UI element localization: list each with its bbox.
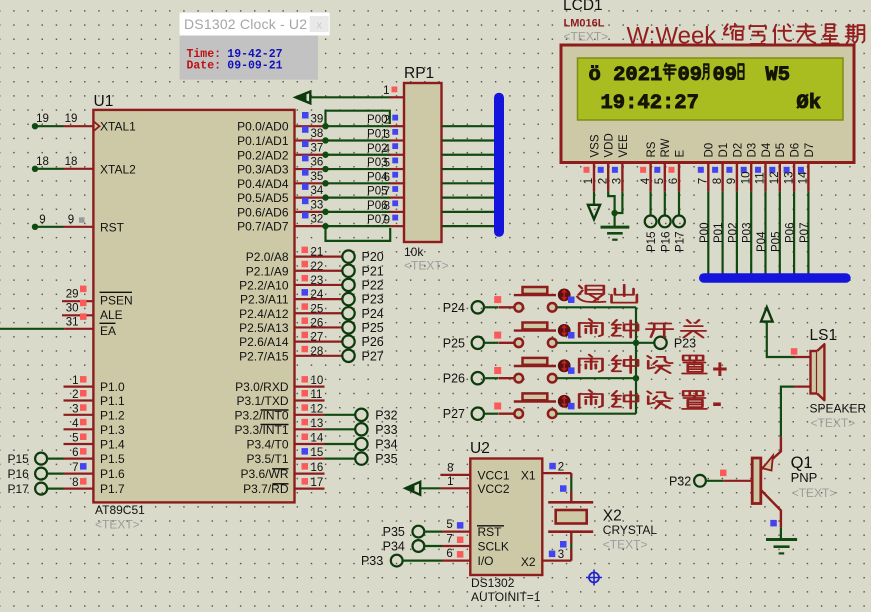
svg-text:1: 1 (447, 476, 453, 488)
svg-text:P33: P33 (375, 423, 397, 437)
crystal X2 plates (548, 501, 593, 504)
svg-text:P32: P32 (375, 408, 397, 422)
U1 pin 15 P3.5 (295, 458, 325, 460)
svg-text:+: + (712, 354, 728, 384)
LCD pin 4 RS (649, 163, 651, 192)
U1 pin 31 EA with wire to left edge (64, 328, 93, 330)
terminal P35 circle (413, 526, 425, 538)
svg-text:E: E (674, 150, 686, 158)
U1 pin 7 P1.6 (64, 473, 94, 475)
svg-text:X2: X2 (603, 508, 622, 525)
wire net P06 from U1 to RP1 (322, 211, 391, 213)
svg-text:2: 2 (597, 178, 609, 184)
terminal P25 (325, 326, 343, 328)
svg-text:P0.5/AD5: P0.5/AD5 (237, 191, 289, 205)
button SW3 row P26 (498, 377, 514, 379)
svg-text:D0: D0 (704, 143, 716, 158)
U1 pin 1 P1.0 (64, 386, 94, 388)
svg-text:P04: P04 (756, 231, 768, 252)
svg-text:7: 7 (446, 534, 452, 546)
svg-text:P17: P17 (7, 482, 29, 496)
svg-text:11: 11 (755, 172, 767, 184)
wire LCD D3 to bus net P03 (750, 191, 752, 274)
svg-text:09: 09 (713, 64, 738, 87)
svg-text:39: 39 (311, 114, 324, 126)
svg-text:X2: X2 (521, 555, 536, 569)
svg-text:4: 4 (72, 418, 79, 430)
svg-text:14: 14 (798, 171, 810, 184)
U1 pin 19 XTAL1 with net wire (64, 125, 94, 127)
terminal P15 at U1 P1.5 (35, 453, 47, 465)
wire net P02 from U1 to RP1 (322, 154, 391, 156)
svg-text:21: 21 (311, 247, 324, 259)
svg-text:P17: P17 (675, 232, 687, 252)
U1 pin 33 P0.6 stub (295, 211, 325, 213)
U1 pin 11 P3.1 (295, 399, 325, 401)
svg-text:RP1: RP1 (404, 65, 434, 82)
svg-text:9: 9 (384, 215, 390, 227)
label alarm switch button (579, 319, 602, 337)
svg-text:19: 19 (36, 113, 49, 125)
wire button P25 to common column (557, 342, 637, 344)
svg-text:12: 12 (311, 403, 324, 415)
svg-text:P2.7/A15: P2.7/A15 (239, 349, 289, 363)
svg-text:P0.0/AD0: P0.0/AD0 (237, 120, 289, 134)
svg-text:P35: P35 (383, 525, 405, 539)
svg-text:13: 13 (311, 418, 324, 430)
wire to RP1 pin 1 (310, 96, 391, 98)
horizontal bus below LCD (704, 273, 846, 283)
svg-text:PSEN: PSEN (100, 294, 133, 308)
svg-text:33: 33 (311, 199, 324, 211)
svg-text:U2: U2 (470, 440, 490, 457)
ground symbol below LCD (601, 226, 630, 229)
wire LCD D4 to bus net P04 (764, 191, 766, 274)
svg-text:P33: P33 (361, 554, 383, 568)
U1 pin 12 P3.2 (295, 414, 325, 416)
svg-text:P0.2/AD2: P0.2/AD2 (237, 148, 289, 162)
wire LCD VEE to ground (615, 191, 623, 213)
svg-text:VCC2: VCC2 (478, 482, 510, 496)
speaker upper pin stub (794, 356, 811, 358)
wire RP1 pin 12 to bus (442, 154, 496, 156)
svg-text:P3.4/T0: P3.4/T0 (246, 438, 288, 452)
wire button P26 to common column (557, 377, 637, 379)
LCD pin 1 VSS (593, 163, 595, 192)
U1 pin 18 XTAL2 with net wire (64, 168, 94, 170)
svg-text:P1.6: P1.6 (100, 467, 125, 481)
svg-text:6: 6 (384, 172, 390, 184)
svg-text:09-09-21: 09-09-21 (227, 60, 282, 73)
svg-text:PNP: PNP (791, 470, 818, 485)
wire LCD D5 to bus net P05 (779, 191, 781, 274)
svg-text:P27: P27 (443, 407, 465, 421)
RP1 pin 4 stub (390, 154, 404, 156)
svg-text:P07: P07 (799, 223, 811, 243)
button SW1 row P24 (498, 306, 514, 308)
svg-text:2: 2 (72, 389, 78, 401)
svg-text:9: 9 (726, 178, 738, 184)
svg-text:29: 29 (66, 289, 79, 301)
svg-text:1: 1 (383, 85, 389, 97)
LCD pin 14 D7 (807, 163, 809, 192)
svg-text:P2.6/A14: P2.6/A14 (239, 335, 289, 349)
svg-text:16: 16 (311, 462, 324, 474)
svg-text:P0.3/AD3: P0.3/AD3 (237, 163, 289, 177)
svg-text:P1.4: P1.4 (100, 438, 125, 452)
terminal P27 (325, 355, 343, 357)
svg-text:P23: P23 (674, 336, 696, 350)
LCD pin 5 RW (664, 163, 666, 192)
power terminal arrow above speaker (761, 307, 773, 321)
svg-text:LCD1: LCD1 (563, 0, 603, 14)
svg-text:D1: D1 (718, 143, 730, 158)
svg-text:P1.7: P1.7 (100, 482, 125, 496)
wire RP1 pin 17 to bus (442, 225, 496, 227)
svg-text:P00: P00 (699, 223, 711, 243)
wire power arrow to speaker (767, 322, 795, 357)
RP1 pin 5 stub (390, 168, 404, 170)
U1 pin 32 P0.7 stub (295, 225, 325, 227)
wire U2 X2 to crystal (570, 533, 572, 561)
svg-text:17: 17 (311, 477, 324, 489)
LCD pin 13 D6 (793, 163, 795, 192)
svg-text:14: 14 (311, 433, 324, 445)
svg-text:W:Week: W:Week (627, 23, 718, 50)
U2 pin 2 X1 (542, 472, 571, 474)
U1 pin 14 P3.4 (295, 443, 325, 445)
wire common button column net P23 (635, 307, 637, 413)
svg-text:7: 7 (384, 186, 390, 198)
terminal P15 at LCD (649, 191, 651, 215)
U1 pin 29 PSEN (62, 300, 93, 302)
U1 pin 16 P3.6 (295, 473, 325, 475)
svg-text:RW: RW (660, 138, 672, 157)
svg-text:P24: P24 (443, 301, 465, 315)
microcontroller U1 AT89C51 body (93, 110, 294, 503)
svg-text:34: 34 (311, 185, 324, 197)
svg-text:P26: P26 (443, 372, 465, 386)
svg-text:D7: D7 (804, 143, 816, 158)
svg-text:Øk: Øk (796, 92, 821, 115)
svg-text:P25: P25 (362, 321, 384, 335)
wire LCD VDD to ground (608, 191, 614, 226)
U2 pin 6 I/O from terminal P33 (442, 559, 470, 561)
svg-text:P15: P15 (7, 452, 29, 466)
vertical bus from RP1 to LCD data (494, 98, 504, 232)
LCD pin 9 D2 (736, 163, 738, 192)
svg-text:AT89C51: AT89C51 (95, 503, 145, 517)
wire net P05 from U1 to RP1 (322, 197, 391, 199)
LCD screen (578, 58, 844, 120)
speaker lower pin wire to Q1 (794, 386, 811, 388)
LCD pin 10 D3 (750, 163, 752, 192)
terminal P16 at U1 P1.6 (35, 468, 47, 480)
svg-text:8: 8 (384, 200, 390, 212)
svg-text:30: 30 (66, 303, 79, 315)
terminal P34 circle (413, 540, 425, 552)
wire LCD D7 to bus net P07 (807, 191, 809, 274)
wire RP1 pin 13 to bus (442, 168, 496, 170)
terminal P23 (636, 342, 654, 344)
wire LCD D6 to bus net P06 (793, 191, 795, 274)
svg-text:26: 26 (311, 317, 324, 329)
svg-text:P22: P22 (362, 278, 384, 292)
RP1 pin 7 stub (390, 197, 404, 199)
svg-text:27: 27 (311, 332, 324, 344)
U1 pin 39 P0.0 stub (295, 125, 325, 127)
U1 pin 34 P0.5 stub (295, 197, 325, 199)
U2 pin 8 VCC1 (440, 474, 470, 476)
svg-text:12: 12 (769, 172, 781, 185)
terminal P33 circle (391, 555, 403, 567)
svg-text:10k: 10k (404, 245, 424, 259)
LCD pin 8 D1 (721, 163, 723, 192)
U1 pin 35 P0.4 stub (295, 182, 325, 184)
wire RP1 pin 11 to bus (442, 139, 496, 141)
svg-text:DS1302: DS1302 (471, 576, 515, 590)
terminal P33 at U1 P3.3 (325, 428, 356, 430)
svg-text:P27: P27 (362, 349, 384, 363)
wire Q1 collector to ground (780, 527, 782, 538)
svg-text:ALE: ALE (100, 308, 123, 322)
svg-text:Date:: Date: (187, 60, 222, 73)
terminal P26 (325, 341, 343, 343)
svg-text:<TEXT>: <TEXT> (564, 30, 609, 44)
wire button P24 to common column (557, 306, 637, 308)
U1 pin 30 ALE (62, 314, 93, 316)
svg-text:5: 5 (654, 178, 666, 184)
U1 pin 9 RST with net wire (64, 226, 94, 228)
svg-text:I/O: I/O (478, 554, 494, 568)
svg-text:38: 38 (311, 128, 324, 140)
svg-text:P1.2: P1.2 (100, 408, 125, 422)
svg-text:D2: D2 (732, 143, 744, 158)
U1 pin 24 P2.3 (295, 298, 325, 300)
svg-text:AUTOINIT=1: AUTOINIT=1 (471, 590, 541, 604)
junction VDD VEE (611, 210, 617, 216)
wire net P07 from U1 to RP1 (322, 225, 391, 227)
svg-text:P35: P35 (375, 452, 397, 466)
label alarm set plus button (579, 355, 602, 373)
svg-text:6: 6 (446, 548, 452, 560)
svg-text:D5: D5 (775, 143, 787, 158)
Q1 collector pin (761, 490, 781, 527)
svg-text:36: 36 (311, 157, 324, 169)
svg-text:9: 9 (39, 214, 45, 226)
Q1 emitter arrow PNP (763, 456, 774, 471)
svg-text:-: - (712, 386, 722, 419)
RTC U2 DS1302 body (470, 459, 542, 576)
svg-text:P01: P01 (713, 223, 725, 243)
terminal arrow ground for LCD VSS (593, 191, 595, 204)
terminal P23 (325, 298, 343, 300)
svg-text:8: 8 (72, 477, 78, 489)
svg-text:<TEXT>: <TEXT> (792, 486, 837, 500)
svg-text:7: 7 (698, 178, 710, 184)
svg-text:3: 3 (558, 549, 564, 561)
U1 pin 13 P3.3 (295, 428, 325, 430)
svg-text:32: 32 (311, 214, 324, 226)
svg-text:P2.5/A13: P2.5/A13 (239, 321, 289, 335)
svg-text:3: 3 (384, 129, 390, 141)
svg-text:5: 5 (384, 158, 390, 170)
svg-text:37: 37 (311, 142, 324, 154)
svg-text:P34: P34 (375, 438, 397, 452)
svg-text:4: 4 (384, 143, 391, 155)
label exit button (577, 286, 605, 302)
svg-text:P2.4/A12: P2.4/A12 (239, 307, 289, 321)
U1 pin 38 P0.1 stub (295, 139, 325, 141)
svg-text:RST: RST (100, 220, 125, 234)
svg-text:VEE: VEE (618, 134, 630, 157)
svg-text:8: 8 (712, 178, 724, 184)
U1 pin 4 P1.3 (64, 428, 94, 430)
svg-text:10: 10 (740, 172, 752, 185)
U1 pin 2 P1.1 (64, 399, 94, 401)
svg-text:VSS: VSS (589, 134, 601, 157)
wire loop U1 pin32 to RP1 pin 9 (326, 226, 391, 241)
svg-text:18: 18 (65, 156, 78, 168)
svg-text:P3.5/T1: P3.5/T1 (246, 452, 288, 466)
svg-text:LS1: LS1 (810, 327, 838, 344)
button SW2 row P25 (498, 342, 514, 344)
speaker LS1 symbol (811, 351, 818, 394)
LCD pin 6 E (678, 163, 680, 192)
wire U2 X1 to crystal (570, 473, 572, 501)
svg-text:P3.0/RXD: P3.0/RXD (235, 380, 289, 394)
svg-text:P3.1/TXD: P3.1/TXD (236, 394, 288, 408)
svg-text:5: 5 (446, 519, 452, 531)
svg-text:4: 4 (640, 177, 652, 184)
LCD pin 11 D4 (764, 163, 766, 192)
RP1 pin 3 stub (390, 139, 404, 141)
svg-text:P1.3: P1.3 (100, 423, 125, 437)
svg-text:P0.7/AD7: P0.7/AD7 (237, 220, 289, 234)
svg-text:P03: P03 (742, 223, 754, 243)
svg-text:<TEXT>: <TEXT> (603, 538, 648, 552)
svg-text:P20: P20 (362, 250, 384, 264)
svg-text:6: 6 (72, 447, 78, 459)
U1 pin 23 P2.2 (295, 284, 325, 286)
U1 pin 36 P0.3 stub (295, 168, 325, 170)
svg-text:VCC1: VCC1 (478, 469, 510, 483)
svg-text:2: 2 (558, 462, 564, 474)
svg-text:x: x (316, 20, 322, 32)
resistor pack RP1 body (404, 83, 442, 242)
wire RP1 pin 14 to bus (442, 182, 496, 184)
svg-text:9: 9 (68, 214, 74, 226)
LCD pin 12 D5 (779, 163, 781, 192)
svg-text:P25: P25 (443, 336, 465, 350)
terminal P35 at U1 P3.5 (325, 458, 356, 460)
svg-text:P06: P06 (785, 223, 797, 243)
wire RP1 pin 16 to bus (442, 211, 496, 213)
U1 pin 21 P2.0 (295, 256, 325, 258)
svg-text:SCLK: SCLK (478, 540, 509, 554)
U1 pin 28 P2.7 (295, 355, 325, 357)
svg-text:D6: D6 (790, 143, 802, 158)
LCD pin 3 VEE (621, 163, 623, 192)
U1 pin 5 P1.4 (64, 443, 94, 445)
LCD pin 7 D0 (707, 163, 709, 192)
svg-text:D4: D4 (761, 142, 773, 157)
svg-text:P0.6/AD6: P0.6/AD6 (237, 205, 289, 219)
svg-text:P2.2/A10: P2.2/A10 (239, 278, 289, 292)
svg-text:<TEXT>: <TEXT> (95, 518, 140, 532)
svg-text:P21: P21 (362, 264, 384, 278)
svg-text:XTAL2: XTAL2 (100, 162, 136, 176)
U1 pin 26 P2.5 (295, 326, 325, 328)
svg-text:D3: D3 (747, 143, 759, 158)
svg-text:P2.0/A8: P2.0/A8 (246, 250, 289, 264)
svg-text:P26: P26 (362, 335, 384, 349)
terminal P17 at U1 P1.7 (35, 483, 47, 495)
svg-text:P34: P34 (383, 540, 405, 554)
svg-text:P16: P16 (660, 232, 672, 252)
svg-text:31: 31 (66, 316, 79, 328)
wire net P00 from U1 to RP1 (322, 125, 391, 127)
U2 pin 3 X2 (542, 559, 571, 561)
RP1 pin 8 stub (390, 211, 404, 213)
svg-text:P05: P05 (770, 232, 782, 252)
svg-text:DS1302 Clock - U2: DS1302 Clock - U2 (184, 16, 307, 32)
terminal P34 at U1 P3.4 (325, 443, 356, 445)
svg-text:P2.3/A11: P2.3/A11 (240, 293, 289, 307)
wire net P01 from U1 to RP1 (322, 139, 391, 141)
svg-text:15: 15 (311, 447, 324, 459)
svg-text:<TEXT>: <TEXT> (811, 416, 856, 430)
svg-text:P16: P16 (7, 467, 29, 481)
U2 pin 5 RST from terminal P35 (442, 530, 470, 532)
svg-text:P15: P15 (646, 232, 658, 252)
svg-text:13: 13 (783, 172, 795, 185)
U1 pin 6 P1.5 (64, 458, 94, 460)
popup close button (310, 16, 329, 32)
svg-text:25: 25 (311, 303, 324, 315)
svg-text:19:42:27: 19:42:27 (601, 92, 699, 115)
ground symbol below Q1 (766, 538, 797, 541)
U1 pin 27 P2.6 (295, 341, 325, 343)
terminal P21 (325, 270, 343, 272)
svg-text:2: 2 (384, 115, 390, 127)
svg-text:RS: RS (646, 141, 658, 157)
label alarm set minus button (579, 390, 602, 408)
U1 pin 25 P2.4 (295, 312, 325, 314)
svg-text:6: 6 (668, 178, 680, 184)
svg-text:23: 23 (311, 275, 324, 287)
svg-text:P02: P02 (727, 223, 739, 243)
U1 pin 8 P1.7 (64, 488, 94, 490)
svg-text:EA: EA (100, 324, 116, 338)
svg-text:24: 24 (311, 289, 324, 301)
svg-text:P0.4/AD4: P0.4/AD4 (237, 177, 289, 191)
svg-text:VDD: VDD (604, 133, 616, 157)
svg-text:1: 1 (583, 178, 595, 184)
crystal X2 body (556, 510, 587, 524)
wire net P04 from U1 to RP1 (322, 182, 391, 184)
input terminal arrow for RP1 pin 1 (296, 92, 311, 104)
button SW4 row P27 (498, 413, 514, 415)
terminal P22 (325, 284, 343, 286)
RP1 pin 6 stub (390, 182, 404, 184)
wire LCD D0 to bus net P00 (707, 191, 709, 274)
wire button P27 to common column (557, 413, 637, 415)
svg-text:XTAL1: XTAL1 (100, 120, 136, 134)
svg-text:35: 35 (311, 171, 324, 183)
svg-text:X1: X1 (521, 469, 536, 483)
terminal P20 (325, 256, 343, 258)
